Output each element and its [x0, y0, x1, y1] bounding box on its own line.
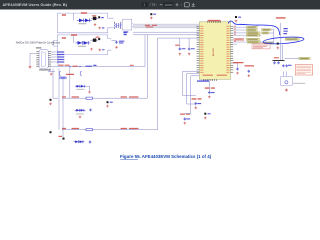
wire bottom nest b — [187, 74, 200, 105]
U2 right pin stubs — [231, 26, 234, 72]
note box install jumpers — [252, 44, 270, 49]
wire boxes col2 vertical — [259, 30, 273, 42]
LED D12 dual — [75, 85, 86, 88]
U2 right pin names — [226, 26, 229, 73]
figure caption — [120, 154, 212, 159]
svg-text:AFE4403EVM Users Guide (Rev. B: AFE4403EVM Users Guide (Rev. B) — [3, 2, 68, 7]
wire row2 y129.7 — [59, 69, 158, 130]
ground TP5 — [235, 20, 238, 23]
wire TX2 to IC — [133, 34, 199, 36]
annotation freehand blue line — [228, 21, 304, 45]
svg-text:1: 1 — [143, 3, 145, 7]
transistor Q1 — [92, 15, 97, 20]
ground block1 a — [94, 23, 97, 26]
wire J4 pin1 to ground — [30, 54, 36, 66]
buffer U4 — [121, 19, 133, 32]
U2 pin numbers top — [208, 20, 221, 21]
labels LED_DRV right of J4 — [57, 51, 65, 62]
svg-text:/ 75: / 75 — [150, 3, 156, 7]
svg-text:100%: 100% — [165, 3, 173, 7]
test point TP6 — [277, 43, 279, 45]
sensor connector J3 — [280, 72, 305, 86]
LED driver section D1 outline — [57, 13, 113, 33]
capacitor C11 — [180, 114, 190, 121]
net box SOMI — [246, 29, 257, 31]
wire bottom nest c — [185, 76, 200, 114]
U2 bottom pin names — [203, 75, 228, 76]
label TXN — [124, 32, 127, 36]
net box ADC_RDY — [246, 38, 259, 40]
resistor R28 — [86, 129, 93, 131]
label DS100A-F — [39, 69, 50, 70]
capacitor C10 — [192, 98, 202, 105]
svg-text:AFE4403: AFE4403 — [212, 47, 215, 56]
labels LED_DRV1/2 blue — [85, 65, 96, 67]
LED D13 dual — [75, 109, 86, 112]
label LED_GND box — [60, 77, 66, 79]
wire drop x140 — [145, 35, 147, 98]
ground block1 b — [98, 27, 104, 30]
ground sensor — [285, 89, 288, 92]
net box SIMO2 — [262, 29, 271, 31]
transformer T1 — [115, 22, 121, 29]
LED D14 dual — [74, 140, 85, 143]
net box SCLK — [246, 26, 257, 28]
label DB9-F — [36, 47, 42, 48]
net box STE2 — [262, 32, 269, 34]
label C12 — [233, 62, 244, 63]
transistor Q2 — [93, 37, 100, 42]
net box STE — [246, 34, 259, 36]
svg-text:Figure 55. AFE4403EVM Schemati: Figure 55. AFE4403EVM Schematics (1 of 4… — [120, 154, 212, 159]
J4 pin stubs right — [48, 52, 51, 67]
labels VCM right — [283, 28, 287, 34]
svg-text:NellCor DS-100A PulseOx Connec: NellCor DS-100A PulseOx Connectors — [16, 41, 61, 45]
label TP_RX_SUP — [276, 17, 286, 18]
wire bottom nest a — [183, 71, 200, 95]
ground C9 — [208, 95, 211, 98]
net label +5V_TX_LED — [81, 12, 87, 13]
label BAV99 D12 — [76, 88, 84, 91]
test point TP3 — [150, 13, 156, 15]
capacitor C4 — [112, 41, 125, 44]
wire block1 vertical — [74, 13, 99, 20]
ground D13 — [79, 116, 82, 119]
net box SIMO — [246, 32, 260, 34]
J4 pin stubs left — [36, 52, 39, 67]
capacitor C13 — [245, 65, 255, 73]
label R18 at corner — [130, 65, 134, 66]
capacitor bank C16 — [273, 61, 285, 65]
wires U2 right rows — [233, 27, 247, 44]
ground C11 — [184, 122, 187, 125]
U2 left pin names — [200, 26, 203, 73]
ground TP6 — [277, 47, 280, 50]
ground C13 — [248, 74, 251, 77]
LED D1 dual — [77, 19, 92, 23]
U2 part label — [197, 80, 209, 81]
wire TX1 to IC — [133, 31, 199, 33]
capacitor C9 — [205, 81, 215, 94]
label MSL0104 — [79, 23, 87, 24]
DNP label block1 — [62, 14, 66, 16]
net box CLKOUT — [247, 41, 260, 43]
transistor Q5 — [59, 136, 65, 140]
U2 bottom pin stubs — [204, 79, 217, 81]
ground block2 b — [99, 49, 105, 52]
ground C7 — [179, 53, 182, 56]
ground J4 lower — [50, 73, 53, 76]
note box sensor red — [295, 65, 313, 76]
test point TP8 — [107, 101, 113, 103]
net label +5V_TX_LED2 — [71, 34, 77, 35]
ground C8 — [188, 53, 191, 56]
label TP_TX above cap bank — [274, 57, 279, 58]
toolbar page controls — [142, 2, 195, 7]
test point TP1 — [98, 16, 104, 18]
transistor Q3 — [50, 99, 52, 101]
labels row2 — [62, 128, 139, 129]
wire U2 RX to C12 — [233, 63, 237, 67]
capacitor C21 — [89, 141, 91, 144]
ground Q3 — [49, 102, 52, 105]
ground block2 a — [90, 48, 93, 51]
net box DIAG_END circled — [263, 42, 274, 44]
ground C10 — [195, 106, 198, 109]
capacitor C17 — [282, 64, 291, 67]
resistor R27 — [86, 97, 93, 99]
wire R23 row — [50, 67, 82, 99]
label R19 on band — [145, 25, 157, 28]
ground J4 — [29, 65, 32, 68]
wire block2 to LED row — [58, 55, 63, 138]
bus wire band — [133, 24, 199, 28]
resistor R21 — [59, 65, 78, 67]
wires J4 right upper — [51, 52, 56, 62]
ground TP8 — [106, 105, 109, 108]
pdf viewer toolbar — [0, 0, 320, 10]
transistor Q4 — [50, 131, 52, 133]
label MSL0104 b — [78, 46, 86, 47]
net box VSENSE — [285, 57, 311, 59]
DNP label block2 — [62, 37, 66, 39]
test point TP9 — [204, 113, 210, 115]
connector J5 — [52, 41, 58, 47]
LED D2 dual — [75, 41, 90, 45]
ground TP9 — [204, 117, 207, 120]
LED driver section D2 outline — [57, 35, 111, 55]
test point TP2 — [98, 38, 100, 40]
ground C12 — [236, 72, 239, 75]
capacitor C20 — [89, 108, 91, 111]
U2 left pin stubs — [197, 26, 200, 72]
wire right column vertical — [281, 23, 283, 61]
label SPI_TEST — [234, 38, 244, 40]
capacitor C12 — [236, 68, 238, 71]
resistor R23 labels — [66, 74, 74, 75]
wire drop x155 — [157, 38, 159, 130]
net box PD_ALM — [285, 38, 299, 40]
labels row1 — [62, 96, 139, 97]
capacitor C7 — [175, 38, 185, 50]
test point TP5 above U2 — [235, 16, 241, 18]
ground D12 — [86, 86, 91, 93]
ground C4 — [115, 46, 118, 49]
wire TX3 to IC — [158, 37, 200, 39]
U2 right pin numbers — [234, 26, 236, 42]
heading NellCor text — [16, 41, 61, 45]
wire row1 y98 — [53, 69, 147, 99]
ground TP3 — [150, 17, 153, 20]
label BAV99 D13 — [76, 113, 84, 116]
IC U2 AFE4403 body — [199, 22, 230, 80]
wire J4 lower row1 — [48, 66, 145, 72]
connector J4 DB9 body — [39, 50, 48, 69]
wire block2 vertical — [74, 35, 99, 43]
U2 top pin stubs — [208, 21, 221, 23]
capacitor C8 — [188, 38, 195, 50]
